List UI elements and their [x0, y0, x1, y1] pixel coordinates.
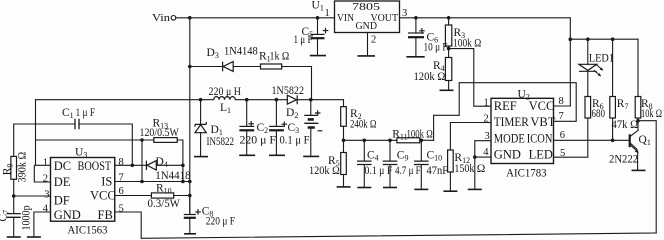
- wire U2 VCC pin 8 stub: [554, 105, 571, 107]
- wire R5 leads: [343, 140, 345, 186]
- svg-text:BOOST: BOOST: [78, 159, 112, 173]
- ground C5: [310, 55, 326, 57]
- capacitor C5 plates: [311, 33, 325, 35]
- svg-text:1 μ F: 1 μ F: [76, 107, 96, 119]
- wire VCC pin 6 row R10 leads: [115, 195, 190, 197]
- svg-text:150k: 150k: [454, 163, 474, 175]
- svg-text:FB: FB: [98, 208, 113, 222]
- polarity plus C6: [419, 28, 425, 34]
- svg-text:4.7 μ F: 4.7 μ F: [395, 165, 421, 177]
- node junction C9 / node row: [388, 139, 392, 143]
- polarity plus C5: [323, 28, 329, 34]
- wire C5 leads: [317, 18, 319, 55]
- wire R3/R4 junction to U2 REF pin 1: [449, 49, 491, 107]
- wire R9 bottom to DF pin 3: [14, 179, 51, 196]
- svg-text:Ω: Ω: [477, 163, 486, 175]
- svg-text:1 μ F: 1 μ F: [294, 34, 313, 46]
- svg-text:390k Ω: 390k Ω: [17, 152, 29, 183]
- resistor R12 body: [448, 150, 454, 172]
- capacitor C10 plates: [414, 161, 429, 164]
- node junction C6 / +5V rail: [414, 16, 418, 20]
- wire left loop DC pin 1: [36, 100, 51, 166]
- svg-text:DF: DF: [54, 193, 70, 207]
- svg-text:0.3/5W: 0.3/5W: [148, 198, 181, 210]
- resistor R2 body: [341, 107, 347, 127]
- wire BOOST pin 8 row with D4: [115, 164, 183, 166]
- svg-text:680: 680: [592, 108, 606, 120]
- svg-text:7: 7: [119, 173, 124, 184]
- ground battery: [303, 155, 319, 157]
- svg-text:100k Ω: 100k Ω: [453, 37, 481, 49]
- ground C9: [383, 187, 397, 189]
- ground C10: [414, 188, 428, 190]
- wire R13 right lead down to IS row: [177, 140, 183, 182]
- node junction IS row / feeder: [188, 180, 192, 184]
- wire LED1 top lead: [587, 39, 589, 64]
- svg-text:VIN: VIN: [337, 12, 354, 24]
- svg-text:GND: GND: [356, 20, 378, 32]
- svg-text:3: 3: [44, 189, 49, 200]
- wire U2 TIMER pin 2 to R12: [450, 123, 491, 151]
- battery BT1: [304, 115, 318, 123]
- wire Vin rail to U1 VIN pin 1: [176, 17, 335, 19]
- transistor Q1 2N222: [629, 134, 631, 147]
- svg-text:1000p: 1000p: [21, 205, 33, 230]
- diode D3 1N4148: [223, 62, 234, 72]
- node Vin input terminal: [171, 15, 176, 20]
- ground C6: [406, 56, 424, 58]
- resistor R9 body: [11, 156, 17, 179]
- svg-text:GND: GND: [494, 148, 521, 162]
- node junction IS row / D4 drop: [181, 180, 185, 184]
- node junction +5V branch corner: [569, 37, 573, 41]
- svg-text:Vin: Vin: [152, 12, 171, 24]
- wire R3 leads: [448, 18, 450, 58]
- wire R13-row drop to IS row: [141, 140, 143, 182]
- ground R5: [337, 186, 351, 188]
- polarity minus battery: [318, 130, 323, 132]
- capacitor C7 plates: [7, 214, 21, 218]
- wire R8 node to far-right vertical: [638, 121, 656, 233]
- wire R2 bottom to node row: [343, 126, 345, 140]
- wire C9 leads: [389, 140, 391, 187]
- node junction D3 / Vin feeder: [188, 65, 192, 69]
- svg-text:240k Ω: 240k Ω: [350, 119, 376, 131]
- inductor L1: [214, 97, 236, 100]
- ground C8: [184, 233, 196, 235]
- svg-text:TIMER: TIMER: [494, 115, 530, 129]
- svg-text:6: 6: [119, 186, 124, 197]
- wire R7 leads: [612, 39, 614, 140]
- ground U3 pin4: [27, 236, 41, 238]
- svg-text:220 μ F: 220 μ F: [206, 215, 235, 227]
- svg-text:47k Ω: 47k Ω: [612, 119, 639, 131]
- node junction IS row left: [140, 180, 144, 184]
- wire U3 GND pin 4 to ground: [34, 212, 51, 236]
- resistor R10 body: [151, 193, 173, 198]
- svg-text:LED1: LED1: [589, 52, 614, 64]
- ground Q1 emitter: [632, 169, 646, 171]
- ground U1 pin2: [358, 55, 376, 57]
- svg-text:DE: DE: [54, 175, 71, 189]
- node junction U2 GND pin4: [473, 155, 477, 159]
- svg-text:3: 3: [485, 131, 490, 142]
- node junction R9-C7 / DF pin: [12, 194, 16, 198]
- node junction C2 / switch rail: [245, 98, 249, 102]
- ground D1: [194, 156, 208, 158]
- resistor R7 body: [610, 97, 616, 119]
- ground C4: [357, 187, 371, 189]
- svg-text:120k Ω: 120k Ω: [309, 165, 340, 177]
- wire switch-node rail left section: [36, 99, 214, 101]
- svg-text:0.1 μ F: 0.1 μ F: [280, 134, 310, 146]
- svg-text:6: 6: [560, 130, 565, 141]
- resistor R4 body: [445, 58, 451, 81]
- svg-text:VCC: VCC: [90, 188, 116, 202]
- wire C6 leads: [415, 18, 417, 57]
- svg-text:C7: C7: [0, 210, 11, 222]
- wire U2 ICON pin 6 to Q1 base: [554, 139, 630, 141]
- wire D1 leads: [200, 100, 202, 157]
- wire C10 leads: [420, 140, 422, 189]
- node junction R7 branch: [611, 37, 615, 41]
- resistor R1 body: [261, 64, 282, 69]
- node junction R7 / ICON wire: [611, 139, 615, 143]
- wire Q1 emitter to ground: [630, 145, 637, 170]
- wire U2 LED pin 5 to R6 bottom: [554, 118, 588, 157]
- wire C7 leads: [13, 196, 15, 236]
- node junction C1 / BOOST row: [131, 164, 135, 168]
- node junction C3 / switch rail: [275, 98, 279, 102]
- wire battery leads: [310, 100, 312, 156]
- capacitor C9 plates: [383, 161, 398, 164]
- svg-text:1N4148: 1N4148: [224, 46, 258, 58]
- polarity plus C2: [248, 121, 254, 127]
- svg-text:10 μ F: 10 μ F: [424, 42, 448, 54]
- svg-text:MODE: MODE: [494, 131, 525, 145]
- svg-text:5: 5: [119, 203, 124, 214]
- wire node row to U2 VBT pin 7 zigzag: [434, 83, 577, 141]
- ground R4: [440, 89, 454, 91]
- wire U1 VOUT pin 3 to top-right corner: [400, 18, 571, 106]
- svg-text:120/0.5W: 120/0.5W: [140, 127, 180, 139]
- wire C1 row: [14, 124, 133, 165]
- resistor R6 body: [585, 97, 591, 119]
- diode D2 1N5822: [287, 95, 297, 104]
- wire R8 leads: [637, 39, 639, 121]
- resistor R8 body: [635, 97, 641, 119]
- resistor R5 body: [341, 153, 347, 175]
- wire C2 leads: [246, 100, 248, 155]
- wire LED1 cathode to R6: [587, 71, 589, 96]
- svg-text:2: 2: [371, 35, 376, 46]
- wire LED branch rail: [570, 38, 638, 40]
- wire Q1 collector: [630, 121, 638, 137]
- svg-text:ICON: ICON: [527, 131, 553, 145]
- svg-text:2: 2: [43, 174, 48, 185]
- svg-text:5: 5: [560, 148, 565, 159]
- ground C3: [269, 154, 285, 156]
- charger U2 AIC1783 box: [491, 98, 554, 163]
- svg-text:LED: LED: [529, 148, 553, 162]
- ground C7: [7, 236, 21, 238]
- wire C3 leads: [275, 100, 277, 155]
- node junction Vin rail / feeder: [188, 16, 192, 20]
- wire R12 bottom lead: [449, 172, 451, 191]
- node junction C4 / node row: [363, 139, 367, 143]
- wire Vin vertical feeder: [189, 18, 191, 215]
- wire C8 leads: [189, 196, 191, 234]
- wire C4 leads: [363, 140, 365, 187]
- svg-text:3: 3: [402, 8, 407, 19]
- wire IS pin 7 row: [115, 181, 190, 183]
- node junction VCC row / feeder: [188, 194, 192, 198]
- node junction R8 / Q1 collector: [636, 119, 640, 123]
- svg-text:10k Ω: 10k Ω: [641, 108, 662, 120]
- wire D2 cathode to R2 corner: [297, 100, 343, 107]
- svg-text:1: 1: [484, 98, 489, 109]
- svg-text:2: 2: [484, 113, 489, 124]
- regulator U1 7805 box: [335, 1, 400, 33]
- svg-text:AIC1783: AIC1783: [506, 165, 546, 179]
- wire bottom feedback rail: [115, 212, 656, 238]
- svg-text:220 μ H: 220 μ H: [209, 86, 242, 98]
- node junction D4 / R13 drop: [181, 164, 185, 168]
- node junction R2-R5 node: [342, 139, 346, 143]
- svg-text:IS: IS: [101, 174, 112, 188]
- wire D3 branch: [190, 67, 312, 100]
- svg-text:120k Ω: 120k Ω: [414, 71, 446, 83]
- node junction C10 / node row: [420, 139, 424, 143]
- svg-text:7: 7: [559, 111, 564, 122]
- ground R12: [443, 190, 457, 192]
- svg-text:100k Ω: 100k Ω: [407, 128, 433, 140]
- polarity plus battery: [315, 110, 321, 116]
- wire U2 MODE pin 3 and GND pin 4 to ground: [475, 141, 491, 189]
- node junction R13 row drop: [140, 138, 144, 142]
- svg-text:1N5822: 1N5822: [272, 85, 305, 97]
- capacitor C8 plates: [184, 214, 196, 216]
- wire U1 GND pin 2 down: [367, 33, 369, 56]
- wire R4 bottom lead: [448, 81, 450, 90]
- svg-text:4: 4: [43, 203, 49, 214]
- svg-text:VBT: VBT: [530, 115, 555, 129]
- resistor R3 body: [445, 25, 451, 46]
- svg-text:47nF: 47nF: [427, 165, 449, 177]
- node junction D1 / switch rail: [199, 98, 203, 102]
- svg-text:220 μ F: 220 μ F: [240, 134, 277, 146]
- ground C2: [239, 154, 255, 156]
- svg-text:1: 1: [325, 8, 330, 19]
- svg-text:IN5822: IN5822: [207, 136, 235, 148]
- node junction battery / output node: [309, 98, 313, 102]
- diode D4 1N4418: [146, 161, 156, 170]
- svg-text:8: 8: [119, 157, 124, 168]
- node junction R3-R4 divider node: [447, 47, 451, 51]
- svg-text:AIC1563: AIC1563: [68, 222, 108, 236]
- capacitor C1 plates: [75, 119, 79, 129]
- capacitor C3 plates: [269, 125, 284, 127]
- svg-text:1k Ω: 1k Ω: [270, 51, 290, 63]
- svg-text:DC: DC: [54, 159, 71, 173]
- polarity plus C8: [195, 209, 201, 215]
- node junction R3 / +5V rail: [447, 16, 451, 20]
- wire L1 to D2 anode: [235, 99, 287, 101]
- svg-text:4: 4: [483, 147, 489, 158]
- svg-text:VCC: VCC: [529, 99, 555, 113]
- svg-text:1N4418: 1N4418: [155, 170, 191, 182]
- svg-text:8: 8: [559, 96, 564, 107]
- resistor R13 body: [154, 138, 177, 143]
- wire R13 row: [36, 139, 154, 141]
- capacitor C2 plates: [239, 125, 254, 127]
- svg-text:1: 1: [43, 157, 48, 168]
- capacitor C6 plates: [408, 32, 424, 34]
- svg-text:2N222: 2N222: [609, 153, 638, 165]
- polarity plus C3: [282, 121, 288, 127]
- ground U2 pin4: [468, 188, 482, 190]
- svg-text:0.1 μ F: 0.1 μ F: [365, 165, 393, 177]
- capacitor C4 plates: [357, 161, 372, 164]
- resistor R11 body: [397, 138, 420, 143]
- node junction C5 / rail: [316, 16, 320, 20]
- node junction LED1 branch: [586, 37, 590, 41]
- svg-text:REF: REF: [494, 99, 517, 113]
- converter U3 AIC1563 box: [51, 158, 115, 222]
- svg-text:GND: GND: [54, 208, 81, 222]
- diode D1 IN5822 schottky: [195, 122, 206, 133]
- LED LED1: [579, 64, 597, 71]
- wire timer node row: [344, 139, 434, 141]
- wire DE pin 2 loop: [34, 165, 50, 182]
